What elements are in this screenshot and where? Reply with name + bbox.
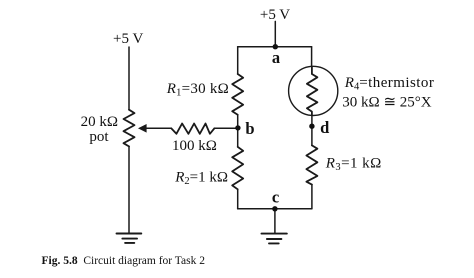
wire node a down to R1	[237, 47, 239, 74]
svg-text:R3=1 kΩ: R3=1 kΩ	[325, 156, 382, 174]
potentiometer body (20 kOhm pot)	[124, 110, 135, 147]
wire right branch top, rail to thermistor circle	[311, 47, 313, 67]
wire thermistor to node d	[311, 115, 313, 126]
svg-text:b: b	[245, 119, 254, 138]
resistor R1	[232, 74, 243, 115]
wire R3 to bottom rail	[311, 185, 313, 209]
resistor R2	[232, 147, 243, 189]
svg-text:Fig. 5.8 Circuit diagram for: Fig. 5.8 Circuit diagram for Task 2	[42, 255, 206, 267]
node d junction dot	[309, 124, 314, 129]
wire top rail	[238, 46, 312, 48]
wire left +5V down to pot	[128, 47, 130, 110]
node c junction dot	[272, 206, 277, 211]
thermistor R4 circle	[289, 66, 338, 115]
svg-text:30 kΩ ≅ 25°X: 30 kΩ ≅ 25°X	[342, 94, 431, 110]
resistor 100 kOhm (horizontal)	[171, 124, 214, 134]
wiper arrow line of pot	[145, 127, 171, 129]
svg-text:d: d	[320, 118, 329, 137]
wire +5V stub to node a	[274, 21, 276, 46]
wire node b to R2	[237, 128, 239, 147]
svg-text:20 kΩ: 20 kΩ	[81, 114, 118, 130]
svg-text:pot: pot	[89, 129, 109, 145]
svg-text:c: c	[272, 188, 279, 207]
wire bottom rail	[238, 208, 312, 210]
wire 100k to node b	[214, 127, 238, 129]
ground (center, under node c)	[262, 234, 287, 244]
svg-text:+5 V: +5 V	[260, 7, 290, 23]
wiper arrowhead of pot	[139, 125, 146, 132]
wire R1 to node b	[237, 115, 239, 128]
svg-text:R4=thermistor: R4=thermistor	[344, 75, 435, 93]
svg-text:R1=30 kΩ: R1=30 kΩ	[166, 81, 229, 99]
node b junction dot	[235, 125, 240, 130]
node a junction dot	[273, 44, 278, 49]
wire node c to ground	[274, 209, 276, 234]
wire R2 to bottom rail	[237, 189, 239, 209]
wire pot to ground	[128, 146, 130, 233]
ground (left, under pot)	[117, 234, 142, 243]
wire node d to R3	[311, 126, 313, 145]
resistor R3	[306, 145, 317, 184]
thermistor R4 zigzag element	[307, 67, 318, 116]
svg-text:a: a	[272, 48, 280, 67]
svg-text:+5 V: +5 V	[113, 31, 143, 47]
svg-text:R2=1 kΩ: R2=1 kΩ	[174, 170, 228, 188]
svg-text:100 kΩ: 100 kΩ	[172, 138, 217, 154]
